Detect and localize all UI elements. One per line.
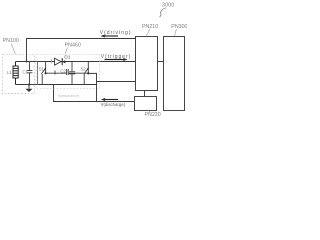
leader PN210: [146, 29, 150, 36]
capacitor C3 (shunt): [69, 62, 75, 85]
wire PN210 to PN300: [158, 61, 164, 63]
wire lower return: [54, 85, 135, 102]
svg-text:V(resonance): V(resonance): [58, 94, 80, 98]
arrow V(trigger): [105, 58, 128, 61]
diode D1 anode tick: [50, 59, 52, 64]
ground: [26, 83, 33, 92]
svg-text:V(discharge): V(discharge): [101, 102, 126, 107]
leader PN100: [11, 44, 16, 55]
wire V(driving): [27, 39, 136, 62]
leader PN220: [148, 110, 151, 113]
leader 3000: [160, 8, 166, 17]
capacitor C1: [27, 62, 33, 85]
svg-text:S2: S2: [81, 67, 87, 72]
block PN460 (dashed box): [36, 55, 100, 89]
block PN210: [136, 37, 158, 91]
block PN100 resonator (dashed box): [2, 55, 34, 94]
wire shunt x38: [37, 62, 39, 85]
diode D1: [55, 58, 66, 65]
svg-text:PN220: PN220: [145, 112, 161, 118]
svg-text:PN300: PN300: [171, 24, 187, 30]
svg-text:V(driving): V(driving): [100, 30, 132, 36]
wire top rail: [16, 61, 136, 63]
wire bottom rail: [16, 84, 97, 86]
leader PN300: [175, 29, 177, 36]
capacitor C2 (series): [67, 69, 69, 75]
wire mid branch: [46, 71, 89, 75]
wire discharge vertical: [96, 82, 98, 102]
svg-text:3000: 3000: [162, 3, 175, 9]
block PN220: [135, 97, 157, 111]
block PN300: [164, 37, 185, 111]
leader PN460: [65, 48, 68, 55]
svg-text:D1: D1: [64, 55, 70, 61]
svg-text:PN100: PN100: [3, 38, 19, 44]
svg-text:PN460: PN460: [65, 43, 81, 49]
arrow V(discharge): [101, 98, 118, 101]
svg-text:C2: C2: [60, 68, 66, 73]
inductor L1: [13, 62, 18, 85]
svg-text:L1: L1: [7, 70, 12, 75]
switch S1: [41, 62, 46, 85]
svg-text:C1: C1: [23, 69, 29, 74]
svg-text:S1: S1: [39, 66, 45, 71]
wire PN210 to PN220: [144, 91, 146, 97]
junction dot driving tap: [26, 61, 28, 63]
arrow V(driving): [101, 35, 118, 38]
switch S2: [84, 62, 89, 85]
wire S2 to PN210: [88, 73, 135, 81]
